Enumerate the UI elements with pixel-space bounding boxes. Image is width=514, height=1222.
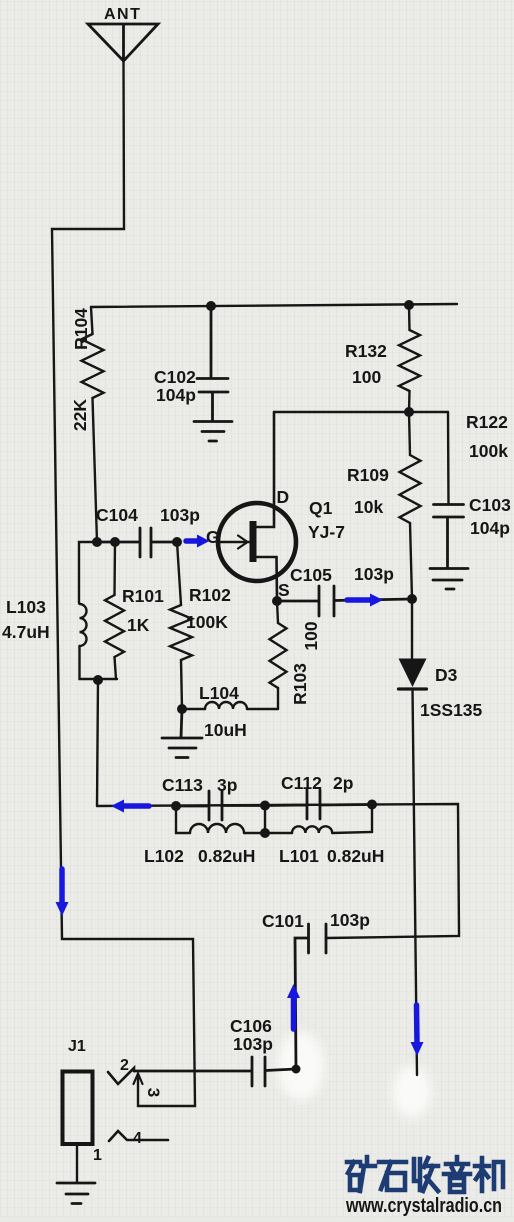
junction R102/L104 ground node [177,704,187,714]
svg-text:C101: C101 [262,911,304,931]
svg-text:104p: 104p [156,385,196,405]
capacitor C104 [97,528,177,557]
junction C113/L102 left node [171,801,181,811]
ground below C103 [430,569,468,590]
resistor R101 [113,542,116,595]
svg-text:C112: C112 [281,773,322,793]
wire antenna feed line [52,61,195,1106]
capacitor C102 [197,306,228,421]
capacitor C101 [295,924,326,1069]
svg-text:0.82uH: 0.82uH [198,846,255,866]
svg-text:C106: C106 [230,1016,272,1036]
wire drain rail [274,411,448,413]
pin 1 [76,1144,78,1183]
junction R104/L103 node [92,537,102,547]
svg-text:L103: L103 [6,597,46,617]
junction C113/C112 middle node [260,801,270,811]
svg-text:C103: C103 [469,495,511,515]
svg-text:R102: R102 [189,585,231,605]
svg-text:100: 100 [352,367,381,387]
svg-text:2p: 2p [333,773,353,793]
char 机 [475,1158,503,1191]
char 音 [444,1157,470,1192]
pin 2 contact [108,1068,134,1084]
svg-text:J1: J1 [68,1038,86,1055]
capacitor C112 [265,790,372,819]
junction C102 top rail [206,301,216,311]
resistor R103 [277,601,278,623]
capacitor C113 [176,791,265,820]
junction R102/C104 gate node [172,537,182,547]
svg-text:Q1: Q1 [309,498,333,518]
junction R101 top node [110,537,120,547]
wire filter rail [97,804,459,938]
blue arrow down antenna line [56,869,69,916]
svg-text:103p: 103p [354,564,394,584]
svg-text:1K: 1K [127,615,150,635]
svg-text:4.7uH: 4.7uH [2,622,50,642]
svg-text:4: 4 [133,1130,142,1147]
resistor R132 [408,305,411,330]
svg-text:R122: R122 [466,412,508,432]
junction R132 top rail [404,300,414,310]
resistor R102 [177,542,181,605]
junction C105/R109/D3 node [407,594,417,604]
svg-text:ANT: ANT [104,6,141,23]
char 石 [379,1162,406,1190]
svg-text:1SS135: 1SS135 [420,700,483,720]
blue arrow into gate [186,535,210,548]
svg-text:G: G [206,527,220,547]
svg-text:103p: 103p [330,910,370,930]
char 矿 [347,1157,375,1191]
capacitor C103 [434,505,464,569]
blue arrow to mixer (left) [111,800,149,813]
inductor L102 [176,806,190,833]
junction C112/L101 right node [367,800,377,810]
svg-text:YJ-7: YJ-7 [308,522,345,542]
antenna symbol [88,24,158,61]
ground below C102 [194,422,232,442]
inductor L101 [265,806,292,834]
char 收 [414,1158,438,1191]
resistor R109 [409,412,410,455]
blue arrow down D3 output [411,1005,424,1056]
svg-text:R132: R132 [345,341,387,361]
svg-text:100K: 100K [186,612,228,632]
svg-text:www.crystalradio.cn: www.crystalradio.cn [345,1194,502,1217]
svg-text:2: 2 [120,1057,129,1074]
svg-text:C113: C113 [162,775,203,795]
connector J1 [63,1072,93,1145]
transistor Q1 YJ-7 [218,503,296,581]
watermark logo 矿石收音机 (drawn strokes) [347,1157,503,1192]
junction L103/R101 bottom node [93,675,103,685]
capacitor C105 [277,586,412,616]
capacitor C106 [134,1057,296,1086]
svg-text:104p: 104p [470,518,510,538]
svg-text:C104: C104 [96,505,138,525]
svg-text:L104: L104 [199,683,239,703]
svg-text:10uH: 10uH [204,720,247,740]
resistor R104 [91,307,93,334]
pin 3 arrowhead on jack contact [134,1074,143,1085]
ground below L104 [162,709,202,758]
wire top supply rail [91,304,457,307]
svg-text:R104: R104 [71,308,91,350]
svg-text:103p: 103p [233,1034,273,1054]
inductor L104 [182,708,205,710]
svg-text:0.82uH: 0.82uH [327,846,384,866]
junction L102/L101 bottom node [260,828,270,838]
svg-text:R109: R109 [347,465,389,485]
junction source S node [272,596,282,606]
node R122 branch wire [447,412,450,504]
svg-text:L102: L102 [144,846,184,866]
svg-text:3p: 3p [217,775,237,795]
svg-text:103p: 103p [160,505,200,525]
junction R132/R109/R122 node [404,407,414,417]
svg-text:R103: R103 [290,663,310,705]
svg-text:10k: 10k [354,497,383,517]
svg-text:C102: C102 [154,367,196,387]
svg-text:3: 3 [144,1088,163,1097]
svg-text:100: 100 [301,621,321,650]
wire node A down to filter [97,680,98,806]
svg-text:R101: R101 [122,586,164,606]
svg-text:D3: D3 [435,665,458,685]
inductor L103 [79,542,97,603]
blue arrow up C101 branch [287,984,300,1029]
svg-text:C105: C105 [290,565,332,585]
junction C106/C101 node [292,1065,301,1074]
blue arrow after C105 [347,594,383,607]
pin 4 contact [109,1131,168,1141]
diode D3 1SS135 [411,599,413,658]
svg-text:100k: 100k [469,441,508,461]
svg-text:L101: L101 [279,846,319,866]
svg-text:D: D [277,487,290,507]
ground below J1 [57,1183,95,1204]
svg-text:1: 1 [93,1147,102,1164]
svg-text:22K: 22K [70,399,90,431]
